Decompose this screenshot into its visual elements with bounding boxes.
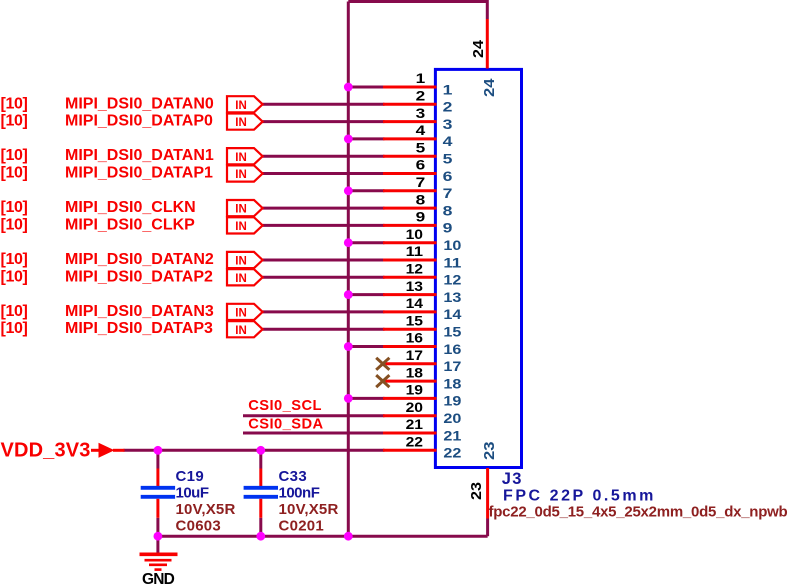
wire GND stub [156,536,159,554]
svg-text:FPC 22P 0.5mm: FPC 22P 0.5mm [503,488,656,505]
svg-text:14: 14 [406,295,424,311]
no-connect X pin 17 [376,358,389,370]
J3 pin 18 [383,364,462,391]
J3 pin 12 [383,261,462,288]
svg-text:MIPI_DSI0_DATAN3: MIPI_DSI0_DATAN3 [65,303,214,320]
svg-text:MIPI_DSI0_DATAN1: MIPI_DSI0_DATAN1 [65,147,214,164]
J3 pin 16 [383,330,462,357]
port IN MIPI_DSI0_CLKP [227,217,263,233]
wire bus to pin 19 [348,397,384,400]
svg-text:IN: IN [235,273,247,285]
capacitor C33 [244,468,339,535]
svg-text:[10]: [10] [1,147,28,164]
svg-text:[10]: [10] [1,165,28,182]
svg-text:24: 24 [470,39,487,58]
wire C19 top [156,450,159,468]
svg-text:IN: IN [235,308,247,320]
svg-text:23: 23 [481,442,498,461]
svg-text:17: 17 [406,347,424,363]
svg-text:13: 13 [406,278,424,294]
svg-text:7: 7 [416,174,426,190]
junction [154,446,163,455]
J3 pin 11 [383,243,462,270]
svg-text:19: 19 [443,393,461,409]
svg-text:12: 12 [443,272,461,288]
svg-text:4: 4 [443,133,453,149]
svg-text:2: 2 [416,88,426,104]
svg-text:MIPI_DSI0_CLKP: MIPI_DSI0_CLKP [65,216,195,233]
svg-text:IN: IN [235,204,247,216]
J3 pin 6 [383,157,453,184]
svg-text:24: 24 [481,78,498,97]
wire CSI0_SCL to pin 20 [243,414,385,417]
wire MIPI_DSI0_DATAP2 to pin 12 [263,276,385,279]
svg-text:100nF: 100nF [279,485,320,502]
svg-text:[10]: [10] [1,320,28,337]
junction [344,238,353,247]
svg-text:C0201: C0201 [279,518,325,535]
svg-text:IN: IN [235,256,247,268]
J3 pin 10 [383,226,462,253]
svg-text:8: 8 [443,202,453,218]
svg-text:IN: IN [235,221,247,233]
svg-text:21: 21 [406,416,424,432]
capacitor C19 [141,468,236,535]
svg-text:MIPI_DSI0_DATAN2: MIPI_DSI0_DATAN2 [65,251,214,268]
wire MIPI_DSI0_DATAN2 to pin 11 [263,259,385,262]
svg-text:6: 6 [443,168,453,184]
svg-text:2: 2 [443,99,453,115]
junction [344,342,353,351]
svg-text:1: 1 [416,70,426,86]
svg-text:10uF: 10uF [176,485,209,502]
svg-text:MIPI_DSI0_DATAP2: MIPI_DSI0_DATAP2 [65,268,213,285]
wire MIPI_DSI0_DATAP1 to pin 6 [263,172,385,175]
port IN MIPI_DSI0_DATAP0 [227,114,263,130]
junction [344,532,353,541]
J3 pin 4 [383,122,453,149]
ground symbol GND [140,554,178,586]
J3 pin 21 [383,416,462,443]
svg-text:10: 10 [406,226,424,242]
svg-text:fpc22_0d5_15_4x5_25x2mm_0d5_dx: fpc22_0d5_15_4x5_25x2mm_0d5_dx_npwb [489,504,788,521]
wire bus to pin 10 [348,241,384,244]
svg-text:22: 22 [443,445,461,461]
J3 pin 5 [383,139,453,166]
port IN MIPI_DSI0_DATAP3 [227,321,263,337]
junction [344,290,353,299]
J3 pin 19 [383,382,462,409]
junction [256,446,265,455]
svg-text:17: 17 [443,358,461,374]
wire bus to pin 7 [348,189,384,192]
svg-text:9: 9 [443,220,453,236]
wire MIPI_DSI0_CLKN to pin 8 [263,207,385,210]
svg-text:13: 13 [443,289,461,305]
svg-text:20: 20 [443,410,461,426]
svg-text:9: 9 [416,209,426,225]
svg-text:5: 5 [443,151,453,167]
wire C19 bottom [156,518,159,536]
svg-text:8: 8 [416,191,426,207]
wire MIPI_DSI0_DATAN1 to pin 5 [263,155,385,158]
svg-text:1: 1 [443,81,453,97]
port IN MIPI_DSI0_DATAN2 [227,252,263,268]
wire pin 23 vertical segment [486,519,489,537]
junction [344,394,353,403]
svg-text:21: 21 [443,427,461,443]
wire VDD_3V3 to pin 22 [124,449,385,452]
svg-text:IN: IN [235,152,247,164]
svg-text:IN: IN [235,325,247,337]
wire MIPI_DSI0_DATAN0 to pin 2 [263,103,385,106]
svg-text:5: 5 [416,139,426,155]
svg-text:[10]: [10] [1,199,28,216]
port IN MIPI_DSI0_DATAP1 [227,165,263,181]
svg-text:10V,X5R: 10V,X5R [279,501,339,518]
port IN MIPI_DSI0_CLKN [227,200,263,216]
svg-text:MIPI_DSI0_DATAP1: MIPI_DSI0_DATAP1 [65,165,213,182]
svg-text:J3: J3 [502,470,523,488]
wire bus to pin 13 [348,293,384,296]
J3 pin 14 [383,295,462,322]
svg-text:16: 16 [443,341,461,357]
svg-text:MIPI_DSI0_DATAP0: MIPI_DSI0_DATAP0 [65,113,213,130]
svg-text:11: 11 [443,254,461,270]
svg-text:C19: C19 [176,468,205,485]
port IN MIPI_DSI0_DATAN0 [227,96,263,112]
wire bus to pin 1 [348,86,384,89]
svg-text:[10]: [10] [1,268,28,285]
J3 pin 3 [383,105,453,132]
svg-text:19: 19 [406,382,424,398]
J3 pin 17 [383,347,462,374]
svg-text:3: 3 [416,105,426,121]
J3 pin 13 [383,278,462,305]
junction [344,186,353,195]
svg-text:7: 7 [443,185,453,201]
svg-text:CSI0_SDA: CSI0_SDA [248,417,323,433]
svg-text:IN: IN [235,117,247,129]
J3 pin 23 (bottom) [468,442,498,519]
svg-text:IN: IN [235,100,247,112]
svg-text:6: 6 [416,157,426,173]
J3 pin 9 [383,209,453,236]
svg-text:10V,X5R: 10V,X5R [176,501,236,518]
svg-text:10: 10 [443,237,461,253]
svg-text:VDD_3V3: VDD_3V3 [1,440,91,462]
wire CSI0_SDA to pin 21 [243,432,385,435]
connector J3 body [435,69,521,467]
junction [344,135,353,144]
svg-text:3: 3 [443,116,453,132]
svg-text:12: 12 [406,261,424,277]
svg-text:15: 15 [406,312,424,328]
svg-text:22: 22 [406,434,424,450]
wire C33 top [259,450,262,468]
svg-text:[10]: [10] [1,216,28,233]
svg-text:18: 18 [443,375,461,391]
wire C33 bottom [259,518,262,536]
J3 pin 1 [383,70,453,97]
port IN MIPI_DSI0_DATAP2 [227,269,263,285]
svg-text:GND: GND [142,571,175,586]
svg-text:20: 20 [406,399,424,415]
wire MIPI_DSI0_DATAP0 to pin 3 [263,120,385,123]
svg-text:[10]: [10] [1,251,28,268]
svg-text:11: 11 [406,243,424,259]
svg-text:16: 16 [406,330,424,346]
J3 pin 8 [383,191,453,218]
svg-text:4: 4 [416,122,426,138]
wire top horizontal to pin 24 [348,2,487,20]
svg-text:18: 18 [406,364,424,380]
svg-text:15: 15 [443,324,461,340]
svg-text:MIPI_DSI0_CLKN: MIPI_DSI0_CLKN [65,199,196,216]
wire GND bus vertical [347,2,350,537]
svg-text:[10]: [10] [1,303,28,320]
svg-text:[10]: [10] [1,95,28,112]
wire bus to pin 16 [348,345,384,348]
J3 pin 2 [383,88,453,115]
wire MIPI_DSI0_DATAN3 to pin 14 [263,310,385,313]
port IN MIPI_DSI0_DATAN1 [227,148,263,164]
svg-text:C33: C33 [279,468,308,485]
wire bus to pin 4 [348,137,384,140]
svg-text:[10]: [10] [1,113,28,130]
svg-text:IN: IN [235,169,247,181]
junction [256,532,265,541]
wire MIPI_DSI0_DATAP3 to pin 15 [263,328,385,331]
J3 pin 7 [383,174,453,201]
svg-text:MIPI_DSI0_DATAN0: MIPI_DSI0_DATAN0 [65,95,214,112]
J3 pin 24 (top) [470,19,498,97]
svg-text:14: 14 [443,306,461,322]
J3 pin 15 [383,312,462,339]
J3 pin 20 [383,399,462,426]
svg-text:23: 23 [468,482,485,500]
junction [154,532,163,541]
port IN MIPI_DSI0_DATAN3 [227,304,263,320]
wire MIPI_DSI0_CLKP to pin 9 [263,224,385,227]
J3 pin 22 [383,434,462,461]
svg-text:MIPI_DSI0_DATAP3: MIPI_DSI0_DATAP3 [65,320,213,337]
power symbol VDD_3V3 [1,440,125,462]
svg-text:CSI0_SCL: CSI0_SCL [248,398,322,414]
wire bottom horizontal GND [158,535,488,538]
svg-text:C0603: C0603 [176,518,222,535]
junction [344,83,353,92]
no-connect X pin 18 [376,375,389,387]
